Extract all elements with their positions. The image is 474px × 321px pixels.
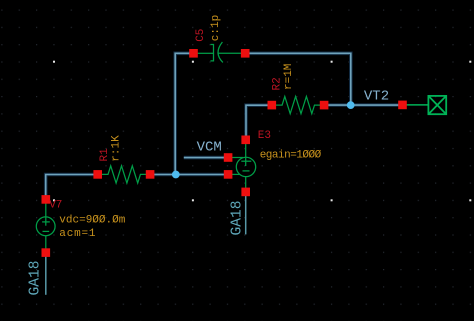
capacitor C5 bbox=[198, 42, 242, 62]
pin V7 minus bbox=[42, 248, 51, 257]
output port VT2 box bbox=[428, 96, 446, 114]
node junction at R1/C5/E3 bbox=[172, 171, 180, 179]
svg-text:r=1M: r=1M bbox=[283, 64, 295, 90]
wire net GA18 stub below E3 bbox=[245, 196, 247, 235]
svg-text:egain=1ØØØ: egain=1ØØØ bbox=[260, 149, 322, 161]
wire C5 left pin to node at R1/E3 (L riser) bbox=[175, 53, 193, 174]
pin E3 top output bbox=[241, 136, 250, 145]
svg-text:vdc=9ØØ.Øm: vdc=9ØØ.Øm bbox=[59, 215, 125, 227]
output port VT2 lead bbox=[406, 104, 428, 106]
pin E3 bottom output bbox=[241, 188, 250, 197]
node junction VT2 bbox=[347, 101, 355, 109]
wire net GA18 stub below V7 bbox=[45, 257, 47, 295]
svg-text:r:1K: r:1K bbox=[111, 135, 123, 162]
pin E3 minus control bbox=[224, 170, 233, 179]
svg-text:R1: R1 bbox=[99, 148, 111, 162]
pin R1 right bbox=[146, 170, 155, 179]
resistor R1 bbox=[102, 166, 146, 183]
pin C5 right bbox=[241, 49, 250, 58]
vcvs E3 bbox=[232, 140, 256, 192]
wire V7 plus up and along main row to E3 minus control bbox=[46, 175, 228, 200]
vdc source V7 bbox=[36, 199, 55, 252]
svg-text:VT2: VT2 bbox=[364, 89, 389, 105]
svg-text:c:1p: c:1p bbox=[210, 15, 222, 41]
pin VT2 port bbox=[398, 101, 407, 110]
pin R1 left bbox=[93, 170, 102, 179]
wire node VCM stub to E3 plus control bbox=[184, 157, 228, 159]
svg-text:acm=1: acm=1 bbox=[59, 228, 96, 240]
pin R2 right bbox=[320, 101, 329, 110]
pin C5 left bbox=[189, 49, 198, 58]
svg-text:GA18: GA18 bbox=[229, 200, 245, 235]
svg-text:V7: V7 bbox=[49, 199, 62, 211]
wire C5 right pin to node VT2 bbox=[245, 53, 351, 105]
svg-text:E3: E3 bbox=[258, 130, 271, 142]
pin V7 plus bbox=[42, 195, 51, 204]
wire R2 right pin to VT2 port pin bbox=[324, 104, 402, 106]
pin E3 plus control bbox=[224, 153, 233, 162]
svg-text:GA18: GA18 bbox=[28, 260, 44, 295]
svg-text:C5: C5 bbox=[195, 29, 207, 42]
wire R2 left pin down to E3 top output bbox=[246, 105, 272, 140]
svg-text:VCM: VCM bbox=[197, 139, 222, 155]
svg-text:R2: R2 bbox=[272, 77, 284, 90]
pin R2 left bbox=[268, 101, 277, 110]
resistor R2 bbox=[276, 97, 320, 114]
